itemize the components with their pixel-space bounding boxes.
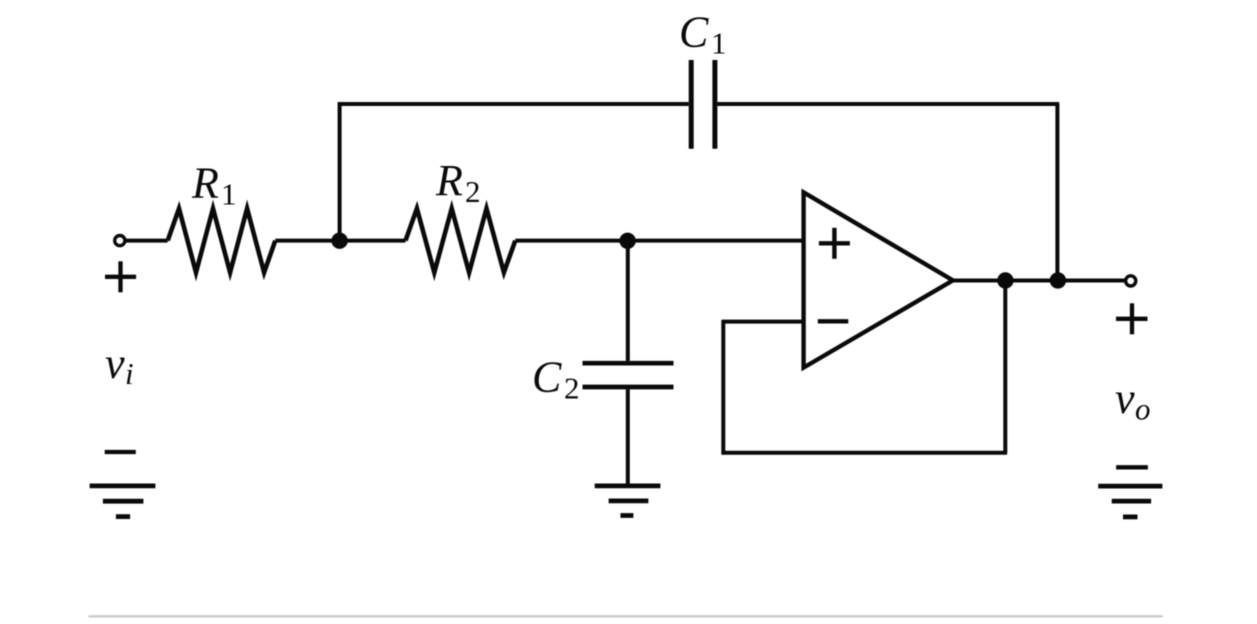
plus polarity at input xyxy=(105,261,136,292)
wire op-amp output xyxy=(953,279,1125,283)
node D junction dot (C1 tap) xyxy=(1050,272,1066,288)
label vo xyxy=(1115,374,1151,427)
wire feedback bottom xyxy=(722,451,1008,455)
label R1 xyxy=(191,159,237,212)
label vi xyxy=(105,339,134,391)
wire top left to C1 xyxy=(338,102,689,106)
label R2 xyxy=(435,156,481,209)
wire C2 to ground xyxy=(626,389,630,483)
capacitor C2 xyxy=(583,363,674,387)
svg-text:R: R xyxy=(191,159,219,208)
wire riser right corner down to output xyxy=(1055,104,1059,281)
resistor R2 xyxy=(406,209,516,273)
wire top C1 to right corner xyxy=(717,102,1059,106)
node C junction dot (feedback tap) xyxy=(997,272,1013,288)
wire R2 to node B xyxy=(515,239,627,243)
svg-text:o: o xyxy=(1135,392,1151,427)
svg-text:C: C xyxy=(679,8,709,57)
svg-text:R: R xyxy=(435,156,463,205)
wire feedback right vertical to output node xyxy=(1003,281,1007,453)
svg-text:2: 2 xyxy=(465,174,481,209)
svg-text:v: v xyxy=(105,339,125,388)
wire op-amp inverting input xyxy=(723,320,803,324)
wire feedback left vertical xyxy=(721,320,725,455)
wire node B down to C2 xyxy=(626,241,630,361)
input terminal vi xyxy=(115,236,125,246)
minus polarity at output xyxy=(1116,465,1148,469)
op-amp - input marker xyxy=(818,319,849,323)
output terminal vo xyxy=(1126,276,1136,286)
op-amp + input marker xyxy=(819,228,850,259)
label C1 xyxy=(679,8,727,61)
plus polarity at output xyxy=(1116,303,1148,334)
op-amp U1 xyxy=(804,192,953,367)
wire riser node A to top xyxy=(338,102,342,240)
node A junction dot xyxy=(331,233,347,249)
ground at input xyxy=(90,486,156,517)
svg-text:1: 1 xyxy=(711,26,727,61)
node B junction dot xyxy=(619,233,635,249)
wire xyxy=(125,239,167,243)
ground at output xyxy=(1098,486,1162,517)
bottom rule xyxy=(89,615,1163,617)
wire xyxy=(275,239,339,243)
wire node B to op-amp + input xyxy=(628,239,804,243)
svg-text:2: 2 xyxy=(564,371,580,406)
resistor R1 xyxy=(168,209,276,273)
wire node A to R2 xyxy=(340,239,406,243)
svg-text:C: C xyxy=(532,353,562,402)
ground below C2 xyxy=(595,486,661,516)
svg-text:i: i xyxy=(125,356,134,391)
capacitor C1 xyxy=(691,60,715,149)
svg-text:v: v xyxy=(1115,374,1135,423)
svg-text:1: 1 xyxy=(221,177,237,212)
minus polarity at input xyxy=(105,450,136,454)
label C2 xyxy=(532,353,580,406)
